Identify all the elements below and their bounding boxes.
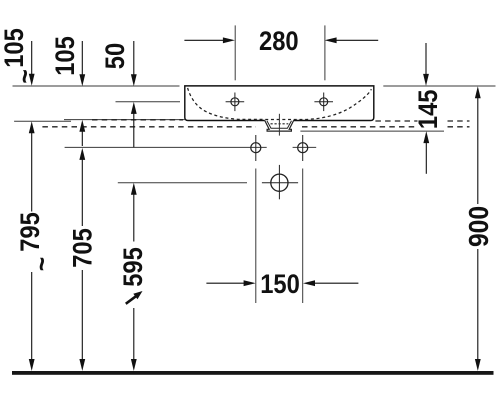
basin inner bowl hidden outline (dashed) [188,88,372,120]
svg-text:~: ~ [26,257,58,271]
dimension 150 arrows [206,282,245,284]
dimension 900 line [475,86,481,98]
svg-text:105: 105 [50,36,80,76]
leader arrow at 595 [126,296,136,304]
tap hole axis line (595 dim ref) [118,182,247,184]
svg-text:795: 795 [15,212,45,252]
dimension 705 line [79,148,85,160]
extension line 150 right [302,169,304,304]
fixing hole right (circle with cross) [298,135,308,161]
dimension 50 upper arrow [133,41,135,77]
svg-text:705: 705 [68,228,98,268]
dimension 145 upper arrow [425,43,427,76]
hidden dashed row over left extension [92,119,183,121]
svg-text:595: 595 [118,247,148,287]
faucet hole right (crosshair circle) [314,93,333,112]
dimension 50 lower arrow [131,102,137,114]
dimension 105 lower arrow [79,120,85,132]
fixing hole left (circle with cross) [251,135,261,161]
drain center line [278,114,280,136]
long hidden dashed line (wall level) [42,126,256,128]
floor line [12,371,494,375]
drain inner walls [267,121,292,128]
svg-text:150: 150 [260,269,300,299]
svg-text:50: 50 [100,43,130,69]
drain outer outline [265,120,294,131]
rim lower reference line (50 dim) [116,101,181,103]
dimension ~795 line [29,121,35,133]
top reference line right [383,85,495,87]
svg-text:~: ~ [9,69,41,83]
dimension 595 line [131,183,137,195]
faucet hole left (crosshair circle) [226,93,245,112]
top reference line left [13,85,180,87]
dimension 280 extension lines [234,25,236,80]
dimension 105 upper arrow [81,41,83,77]
reference line ~795 (left) [14,120,71,122]
hidden dashed row right of basin (upper) [375,120,417,122]
basin outline [185,86,374,121]
siphon cover bottom line (145 dim lower ref) [300,130,444,132]
svg-text:145: 145 [413,89,443,129]
dimension ~105 upper arrow [31,41,33,76]
extension line 150 left [255,169,257,304]
drain hole big circle [262,165,298,199]
dimension 145 lower arrow [423,131,429,143]
svg-text:900: 900 [463,206,495,247]
dimension 280 arrows [184,39,224,41]
drain hidden dashed line [271,123,289,125]
svg-text:105: 105 [0,28,29,68]
basin bottom extension line left (105 dim) [64,119,185,121]
fixing holes axis line (705 dim ref) [65,146,267,148]
svg-text:280: 280 [259,27,299,57]
